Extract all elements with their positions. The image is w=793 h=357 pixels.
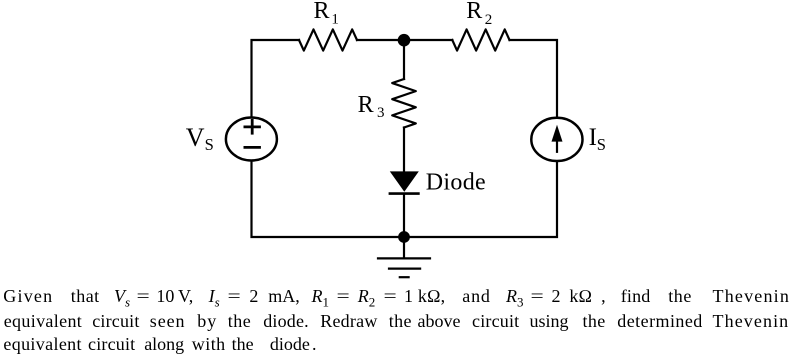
svg-text:S: S xyxy=(597,135,606,154)
svg-text:R: R xyxy=(466,0,482,24)
svg-text:3: 3 xyxy=(377,105,385,121)
svg-text:Diode: Diode xyxy=(426,169,486,195)
svg-text:I: I xyxy=(589,124,597,151)
svg-text:1: 1 xyxy=(331,12,339,28)
svg-text:V: V xyxy=(186,123,205,152)
svg-text:R: R xyxy=(314,0,330,24)
svg-text:S: S xyxy=(205,135,214,154)
svg-text:R: R xyxy=(358,92,374,118)
svg-text:2: 2 xyxy=(485,12,493,28)
